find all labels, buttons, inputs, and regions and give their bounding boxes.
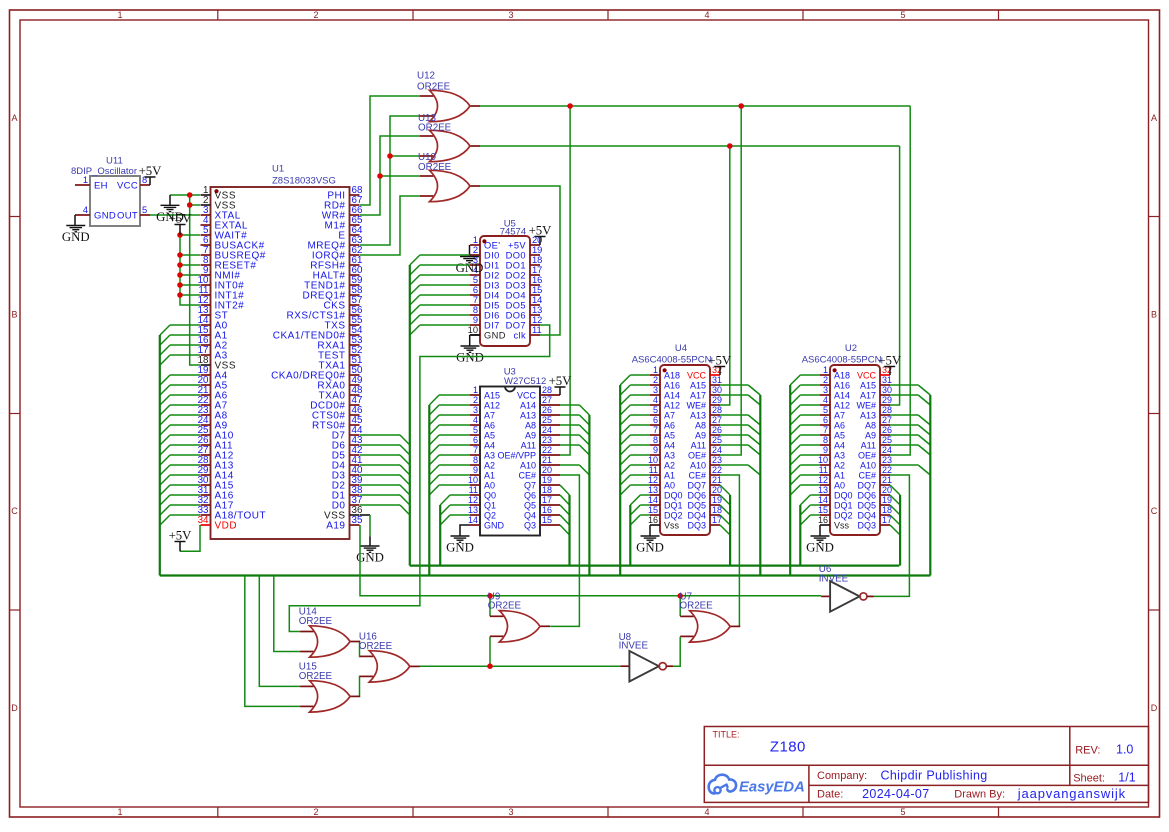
wire U1 VSS pins 1,2 to ground — [170, 194, 200, 196]
+5V flag at U2 VCC — [889, 367, 891, 376]
svg-text:18: 18 — [712, 505, 722, 515]
wire MEMWR from U13 output — [480, 145, 900, 147]
svg-text:17: 17 — [712, 515, 722, 525]
svg-text:34: 34 — [198, 515, 209, 526]
data bus entries U2 DQ7-DQ3 — [890, 485, 900, 535]
svg-text:A4: A4 — [664, 441, 675, 451]
ground flag stem near U1 pins 1,2 — [169, 195, 171, 205]
data bus entries U2 DQ0-DQ2 — [800, 495, 820, 525]
or-gate U10 (OR2EE gate) — [420, 170, 480, 201]
svg-text:30: 30 — [882, 385, 892, 395]
wire U11 GND pin down — [74, 215, 76, 226]
svg-text:A0: A0 — [834, 481, 845, 491]
svg-text:Q0: Q0 — [484, 491, 496, 501]
wire to U9 input 2 — [489, 636, 491, 666]
svg-text:OR2EE: OR2EE — [418, 162, 452, 173]
wire U2 CE# to U6 output — [870, 475, 909, 596]
junction pull-up rail y=235 — [177, 232, 183, 238]
svg-text:VCC: VCC — [687, 371, 707, 381]
svg-text:A10: A10 — [860, 461, 876, 471]
svg-text:A12: A12 — [484, 401, 500, 411]
svg-text:11: 11 — [819, 465, 828, 475]
svg-text:Q6: Q6 — [524, 491, 536, 501]
junction U16out/U9 — [487, 663, 493, 669]
svg-text:Vss: Vss — [664, 521, 680, 531]
svg-text:12: 12 — [648, 475, 658, 485]
svg-text:2: 2 — [653, 375, 658, 385]
svg-text:2024-04-07: 2024-04-07 — [862, 787, 929, 801]
address bus entries to U3 left pins — [429, 395, 470, 495]
+5V power flag at U3 — [549, 374, 573, 388]
svg-text:DO1: DO1 — [506, 261, 526, 271]
U3 right data bus vertical — [568, 495, 570, 566]
svg-text:7: 7 — [653, 425, 658, 435]
svg-text:OR2EE: OR2EE — [488, 600, 522, 611]
wire pull-up to pin row y=235 — [180, 234, 200, 236]
svg-text:CE#: CE# — [518, 471, 536, 481]
svg-text:DQ4: DQ4 — [857, 511, 876, 521]
svg-text:8: 8 — [823, 435, 828, 445]
junction pull-up rail y=255 — [177, 252, 183, 258]
svg-text:Q4: Q4 — [524, 511, 536, 521]
svg-text:A7: A7 — [484, 411, 495, 421]
svg-text:A17: A17 — [690, 391, 706, 401]
wire address to U15 input 1 — [259, 576, 300, 687]
svg-text:A6: A6 — [834, 421, 845, 431]
svg-text:DQ1: DQ1 — [834, 501, 853, 511]
wire WR# to U13 input 1 — [360, 136, 420, 215]
wire MEMRD from U12 output across top — [480, 105, 910, 107]
+5V flag at U3 VCC — [559, 387, 561, 395]
svg-text:1: 1 — [823, 365, 828, 375]
svg-text:4: 4 — [823, 395, 828, 405]
svg-text:A15: A15 — [690, 381, 706, 391]
svg-text:DI7: DI7 — [484, 321, 500, 331]
svg-text:GND: GND — [456, 261, 484, 275]
svg-text:15: 15 — [818, 505, 828, 515]
data bus entries from U1 D7-D0 — [360, 435, 410, 515]
ground flag at U1 pin36 — [356, 546, 384, 565]
svg-text:DO7: DO7 — [506, 321, 526, 331]
+5V power flag at U1 VDD — [169, 528, 193, 542]
junction pull-up rail y=275 — [177, 272, 183, 278]
wire IOWR from U10 output to U5 clk — [480, 186, 560, 335]
svg-text:31: 31 — [882, 375, 892, 385]
svg-text:U1: U1 — [272, 164, 284, 175]
inverter U8 (INVEE inverter) — [620, 651, 673, 682]
svg-text:GND: GND — [636, 541, 664, 555]
svg-text:20: 20 — [882, 485, 892, 495]
svg-text:DQ2: DQ2 — [664, 511, 683, 521]
EasyEDA logo — [709, 775, 805, 796]
svg-text:26: 26 — [712, 425, 722, 435]
svg-text:14: 14 — [648, 495, 658, 505]
svg-text:7: 7 — [473, 295, 478, 305]
svg-text:DI0: DI0 — [484, 251, 500, 261]
svg-text:A17: A17 — [860, 391, 876, 401]
U4 right data bus vertical — [729, 495, 731, 566]
svg-text:5: 5 — [900, 807, 905, 817]
or-gate U13 (OR2EE gate) — [420, 130, 480, 161]
wire IORQ# to U10 input 2 — [360, 196, 420, 255]
svg-text:A2: A2 — [484, 461, 495, 471]
svg-text:15: 15 — [532, 285, 542, 295]
svg-text:OR2EE: OR2EE — [359, 641, 393, 652]
svg-text:14: 14 — [532, 295, 542, 305]
svg-text:23: 23 — [542, 435, 552, 445]
+5V power flag at U2 — [878, 353, 902, 367]
wire pull-up to pin row y=295 — [180, 294, 200, 296]
svg-text:A4: A4 — [834, 441, 845, 451]
svg-text:A8: A8 — [865, 421, 876, 431]
svg-text:B: B — [1151, 310, 1157, 320]
svg-text:clk: clk — [513, 331, 526, 341]
svg-text:22: 22 — [882, 465, 892, 475]
svg-text:DI2: DI2 — [484, 271, 500, 281]
data bus bottom horizontal — [410, 564, 900, 566]
svg-text:16: 16 — [648, 515, 658, 525]
svg-text:+5V: +5V — [878, 353, 902, 367]
wire MEMWR down to U2 WE# — [890, 146, 900, 405]
wire WR# branch to U10 input 1 — [380, 175, 420, 177]
svg-text:20: 20 — [542, 465, 552, 475]
svg-text:+5V: +5V — [708, 353, 732, 367]
svg-text:4: 4 — [704, 10, 709, 20]
svg-text:A3: A3 — [484, 451, 495, 461]
svg-text:Q2: Q2 — [484, 511, 496, 521]
svg-text:Drawn By:: Drawn By: — [954, 789, 1005, 801]
svg-text:GND: GND — [806, 541, 834, 555]
svg-text:8DIP_Oscillator: 8DIP_Oscillator — [71, 166, 137, 177]
svg-text:A11: A11 — [861, 441, 876, 451]
svg-text:A18: A18 — [834, 371, 850, 381]
svg-text:28: 28 — [712, 405, 722, 415]
svg-text:+5V: +5V — [549, 374, 573, 388]
svg-text:DQ1: DQ1 — [664, 501, 683, 511]
svg-text:8: 8 — [473, 455, 478, 465]
wire U16 output to U8 input — [419, 665, 621, 667]
svg-text:8: 8 — [473, 305, 478, 315]
wire RD# to U12 input 1 — [360, 96, 420, 205]
svg-text:REV:: REV: — [1075, 745, 1100, 757]
data bus vertical — [409, 265, 411, 566]
wire MEMRD down to U4 OE# — [720, 106, 741, 455]
svg-text:21: 21 — [712, 475, 722, 485]
ground flag at U5 GND — [456, 346, 484, 365]
svg-text:11: 11 — [532, 325, 542, 335]
U2 right data bus vertical — [899, 495, 901, 566]
wire pull-up to pin row y=285 — [180, 284, 200, 286]
ground flag at U4 — [636, 536, 664, 555]
junction A19/U9 — [487, 593, 493, 599]
svg-text:Z180: Z180 — [770, 739, 806, 756]
svg-text:4: 4 — [653, 395, 658, 405]
svg-text:3: 3 — [508, 10, 513, 20]
svg-text:A13: A13 — [690, 411, 706, 421]
svg-text:23: 23 — [882, 455, 892, 465]
svg-text:DO6: DO6 — [506, 311, 526, 321]
ground flag at U5 OE' — [456, 257, 484, 276]
or-gate U9 (OR2EE gate) — [490, 611, 550, 642]
svg-text:10: 10 — [818, 455, 828, 465]
svg-text:21: 21 — [542, 455, 552, 465]
+5V flag at U5 pin20 — [539, 237, 541, 246]
svg-text:EH: EH — [94, 181, 108, 192]
svg-text:A13: A13 — [520, 411, 536, 421]
svg-text:A1: A1 — [484, 471, 495, 481]
svg-text:27: 27 — [882, 415, 892, 425]
svg-text:DQ7: DQ7 — [857, 481, 876, 491]
svg-text:7: 7 — [823, 425, 828, 435]
svg-text:A5: A5 — [484, 431, 495, 441]
junction VSS pin2 — [187, 202, 193, 208]
svg-text:31: 31 — [712, 375, 722, 385]
svg-text:5: 5 — [473, 275, 478, 285]
svg-text:Chipdir Publishing: Chipdir Publishing — [881, 769, 988, 783]
svg-text:OR2EE: OR2EE — [299, 671, 333, 682]
wire U8 output to U7 input 2 — [672, 637, 680, 667]
svg-text:9: 9 — [473, 465, 478, 475]
svg-text:27: 27 — [712, 415, 722, 425]
svg-text:A2: A2 — [664, 461, 675, 471]
svg-text:1: 1 — [473, 385, 478, 395]
svg-text:AS6C4008-55PCN: AS6C4008-55PCN — [632, 355, 712, 366]
svg-text:1: 1 — [473, 235, 478, 245]
svg-text:A0: A0 — [664, 481, 675, 491]
svg-text:A15: A15 — [860, 381, 876, 391]
svg-text:6: 6 — [473, 435, 478, 445]
svg-text:A9: A9 — [695, 431, 706, 441]
svg-text:A0: A0 — [484, 481, 495, 491]
svg-text:U4: U4 — [675, 343, 687, 354]
svg-text:VCC: VCC — [117, 181, 138, 192]
ground flag at U2 Vss — [819, 525, 821, 536]
svg-text:24: 24 — [542, 425, 552, 435]
svg-text:DQ3: DQ3 — [687, 521, 706, 531]
svg-text:3: 3 — [823, 385, 828, 395]
svg-text:jaapvanganswijk: jaapvanganswijk — [1017, 786, 1126, 801]
junction VSS pin1 — [187, 192, 193, 198]
wire address to U15 input 2 — [245, 576, 300, 707]
svg-text:A: A — [1151, 113, 1157, 123]
svg-text:1.0: 1.0 — [1116, 743, 1133, 757]
svg-text:26: 26 — [542, 405, 552, 415]
latch U5 74574 — [468, 219, 543, 346]
svg-text:DQ7: DQ7 — [687, 481, 706, 491]
address bus entries to U2 right pins — [890, 385, 930, 475]
svg-text:+5V: +5V — [169, 211, 193, 225]
svg-text:DI5: DI5 — [484, 301, 500, 311]
svg-text:12: 12 — [818, 475, 828, 485]
svg-text:GND: GND — [484, 331, 506, 341]
junction A19/U7 — [677, 593, 683, 599]
svg-text:A5: A5 — [834, 431, 845, 441]
U3 left data bus vertical — [439, 505, 441, 566]
svg-text:11: 11 — [469, 485, 478, 495]
svg-text:VCC: VCC — [857, 371, 877, 381]
wire U3 CE# to U9 output — [550, 475, 579, 626]
+5V flag stem of pull-up rail — [179, 225, 181, 236]
wire A19 to U9 input 1 — [489, 596, 491, 617]
svg-text:A9: A9 — [525, 431, 536, 441]
svg-text:3: 3 — [508, 807, 513, 817]
svg-text:2: 2 — [473, 245, 478, 255]
address bus entries to U4 left pins — [620, 375, 650, 495]
svg-text:DI4: DI4 — [484, 291, 500, 301]
svg-text:CE#: CE# — [858, 471, 876, 481]
svg-text:14: 14 — [468, 515, 478, 525]
EPROM U3 W27C512 — [468, 367, 560, 536]
svg-text:A16: A16 — [834, 381, 850, 391]
or-gate U12 (OR2EE gate) — [420, 90, 480, 121]
svg-text:16: 16 — [532, 275, 542, 285]
svg-text:2: 2 — [313, 10, 318, 20]
svg-text:A15: A15 — [484, 391, 500, 401]
address bus A0-A18 entries from U1 left pins — [160, 325, 200, 525]
svg-text:DQ0: DQ0 — [834, 491, 853, 501]
svg-text:CE#: CE# — [688, 471, 706, 481]
svg-text:A3: A3 — [834, 451, 845, 461]
svg-text:5: 5 — [900, 10, 905, 20]
svg-text:21: 21 — [882, 475, 892, 485]
junction pull-up rail y=285 — [177, 282, 183, 288]
wire MEMRD down to U3 OE# — [560, 106, 570, 455]
svg-text:A8: A8 — [695, 421, 706, 431]
svg-text:15: 15 — [648, 505, 658, 515]
wire bank bit to U14 input 2 — [274, 576, 300, 652]
oscillator U11 8DIP_Oscillator — [71, 156, 150, 226]
svg-text:13: 13 — [818, 485, 828, 495]
svg-text:25: 25 — [712, 435, 722, 445]
wire U11 VCC to +5V stem — [149, 177, 151, 185]
svg-text:INVEE: INVEE — [619, 641, 649, 652]
svg-text:30: 30 — [712, 385, 722, 395]
svg-text:24: 24 — [712, 445, 722, 455]
svg-text:DQ4: DQ4 — [687, 511, 706, 521]
U4 left address bus vertical — [619, 385, 621, 576]
svg-text:24: 24 — [882, 445, 892, 455]
svg-text:11: 11 — [649, 465, 658, 475]
svg-text:22: 22 — [542, 445, 552, 455]
svg-text:A13: A13 — [860, 411, 876, 421]
wire pull-up to pin row y=275 — [180, 274, 200, 276]
+5V flag at U4 VCC — [719, 367, 721, 376]
svg-text:DQ3: DQ3 — [857, 521, 876, 531]
svg-text:18: 18 — [542, 485, 552, 495]
svg-text:DQ6: DQ6 — [857, 491, 876, 501]
wire U5 DO7 to U14 input 1 (bank bit) — [289, 325, 549, 632]
svg-text:A5: A5 — [664, 431, 675, 441]
svg-text:A14: A14 — [520, 401, 536, 411]
svg-text:19: 19 — [542, 475, 552, 485]
U4 right address bus vertical — [759, 395, 761, 576]
svg-text:+5V: +5V — [169, 528, 193, 542]
svg-text:12: 12 — [468, 495, 478, 505]
svg-text:19: 19 — [712, 495, 722, 505]
ground flag stem at U5 OE pin — [469, 245, 471, 257]
svg-text:3: 3 — [473, 405, 478, 415]
wire A19 to U7 input 1 — [679, 596, 681, 616]
svg-text:+5V: +5V — [508, 241, 526, 251]
svg-text:10: 10 — [468, 325, 478, 335]
svg-text:AS6C4008-55PCN: AS6C4008-55PCN — [802, 355, 882, 366]
svg-text:A7: A7 — [834, 411, 845, 421]
wire U4 CE# to U7 output — [720, 475, 739, 626]
svg-text:Company:: Company: — [817, 770, 867, 782]
svg-text:4: 4 — [83, 205, 88, 215]
svg-text:23: 23 — [712, 455, 722, 465]
wire U15 output to U16 input 2 — [358, 676, 361, 696]
svg-text:U2: U2 — [845, 343, 857, 354]
svg-text:6: 6 — [473, 285, 478, 295]
svg-text:Date:: Date: — [817, 789, 843, 801]
svg-text:OUT: OUT — [117, 211, 138, 222]
svg-text:OR2EE: OR2EE — [299, 616, 333, 627]
junction MEMRD/U4 — [738, 103, 744, 109]
ground flag at U3 pin14 — [460, 525, 470, 536]
svg-text:5: 5 — [653, 405, 658, 415]
or-gate U16 (OR2EE gate) — [360, 651, 420, 682]
svg-text:25: 25 — [542, 415, 552, 425]
junction pull-up rail y=265 — [177, 262, 183, 268]
wire pull-up to pin row y=265 — [180, 264, 200, 266]
svg-text:A6: A6 — [484, 421, 495, 431]
svg-text:OE': OE' — [484, 241, 500, 251]
svg-text:A19: A19 — [326, 521, 345, 532]
svg-text:Q7: Q7 — [524, 481, 536, 491]
svg-text:EasyEDA: EasyEDA — [739, 780, 805, 796]
svg-text:DQ5: DQ5 — [857, 501, 876, 511]
svg-text:29: 29 — [712, 395, 722, 405]
svg-text:OR2EE: OR2EE — [418, 123, 452, 134]
svg-text:Q3: Q3 — [524, 521, 536, 531]
U3 right address bus vertical — [588, 415, 590, 576]
svg-text:DO2: DO2 — [506, 271, 526, 281]
svg-text:28: 28 — [882, 405, 892, 415]
data bus entries U4 DQ0-DQ2 — [630, 495, 650, 525]
svg-text:OE#: OE# — [858, 451, 876, 461]
svg-text:A9: A9 — [865, 431, 876, 441]
svg-text:10: 10 — [648, 455, 658, 465]
svg-text:A14: A14 — [664, 391, 680, 401]
svg-text:+5V: +5V — [529, 223, 553, 237]
svg-text:8: 8 — [653, 435, 658, 445]
svg-text:VDD: VDD — [215, 521, 238, 532]
svg-text:3: 3 — [653, 385, 658, 395]
+5V pull-up rail left of U1 — [180, 235, 200, 305]
+5V power flag at pull-up rail — [169, 211, 193, 225]
svg-text:DQ0: DQ0 — [664, 491, 683, 501]
svg-text:A: A — [11, 113, 17, 123]
svg-text:DI3: DI3 — [484, 281, 500, 291]
svg-text:A16: A16 — [664, 381, 680, 391]
wire MREQ# branch to U13 input 2 — [390, 155, 420, 157]
svg-text:A1: A1 — [664, 471, 675, 481]
svg-text:6: 6 — [823, 415, 828, 425]
svg-text:2: 2 — [473, 395, 478, 405]
svg-text:A18: A18 — [664, 371, 680, 381]
svg-text:A12: A12 — [834, 401, 850, 411]
svg-text:A3: A3 — [664, 451, 675, 461]
svg-text:GND: GND — [94, 211, 116, 222]
svg-text:DI6: DI6 — [484, 311, 500, 321]
svg-text:A8: A8 — [525, 421, 536, 431]
svg-text:29: 29 — [882, 395, 892, 405]
wire U14 output to U16 input 1 — [358, 642, 361, 657]
svg-text:17: 17 — [542, 495, 552, 505]
address bus bottom horizontal — [160, 574, 931, 576]
svg-text:A14: A14 — [834, 391, 850, 401]
